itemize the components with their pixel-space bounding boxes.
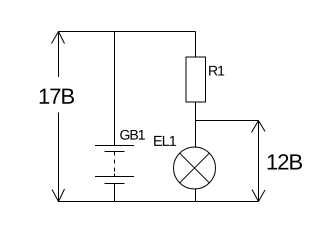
reference label R1 (209, 66, 224, 76)
wire top horizontal from left arrow to resistor branch (58, 31, 196, 33)
dimension arrow 17V (left, double-headed vertical) (52, 32, 65, 202)
reference label GB1 (120, 130, 145, 140)
resistor R1 (186, 57, 206, 102)
wire battery branch top vertical (114, 32, 116, 146)
wire resistor branch top vertical (195, 32, 197, 58)
value label 12V (268, 154, 302, 169)
wire bottom horizontal (58, 201, 259, 203)
reference label EL1 (154, 136, 176, 146)
wire resistor to lamp vertical (195, 102, 197, 148)
battery GB1 (95, 146, 134, 184)
wire lamp bottom vertical (195, 189, 197, 202)
dimension arrow 12V (right, double-headed vertical) (252, 121, 266, 202)
wire junction to right arrow horizontal (196, 120, 259, 122)
wire battery bottom vertical (114, 184, 116, 203)
value label 17V (40, 89, 74, 104)
lamp EL1 (174, 147, 216, 189)
